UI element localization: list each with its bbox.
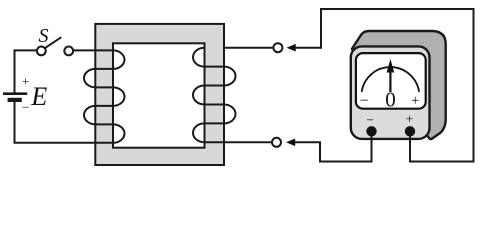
svg-text:+: +: [405, 113, 413, 128]
svg-text:S: S: [39, 25, 49, 47]
svg-text:+: +: [411, 93, 419, 109]
svg-text:−: −: [366, 113, 374, 128]
svg-text:−: −: [22, 100, 29, 115]
svg-text:E: E: [30, 82, 47, 111]
svg-text:0: 0: [385, 88, 396, 112]
svg-text:+: +: [22, 74, 29, 89]
svg-text:−: −: [359, 93, 368, 110]
